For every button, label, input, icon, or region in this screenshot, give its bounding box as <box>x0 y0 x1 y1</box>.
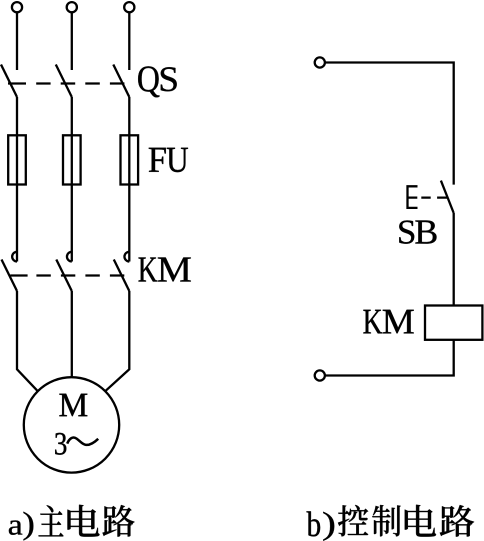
label FU - U <box>167 148 188 172</box>
terminal L2 <box>67 2 77 12</box>
label SB - B <box>415 221 436 244</box>
contactor KM pole 3 blade <box>114 260 130 292</box>
caption a paren <box>24 512 34 541</box>
fuse FU 1 <box>8 135 26 184</box>
label KM coil - M <box>383 310 414 334</box>
caption zhu 主 <box>39 505 64 536</box>
contactor KM pole 3 fixed contact arc <box>124 252 129 262</box>
control circuit top terminal <box>315 57 325 67</box>
control circuit bottom terminal <box>315 370 325 380</box>
caption a <box>9 521 22 535</box>
switch QS pole 1 blade <box>1 65 17 98</box>
wire L3 mid <box>128 97 130 262</box>
caption b <box>307 511 321 536</box>
tilde of 3~ <box>67 438 98 445</box>
label KM coil - K <box>363 310 382 334</box>
contactor coil KM <box>425 306 482 340</box>
label QS - S <box>161 67 177 91</box>
switch QS pole 3 blade <box>113 65 129 98</box>
caption dian2 电 <box>405 505 436 537</box>
caption dian 电 <box>68 505 100 537</box>
contactor KM pole 2 blade <box>56 260 72 292</box>
wire L3 top <box>128 13 130 71</box>
label SB - S <box>399 221 414 244</box>
label KM main - K <box>139 258 158 282</box>
switch QS pole 2 blade <box>56 65 72 98</box>
motor label 3 <box>55 433 66 455</box>
wire L2 mid <box>71 97 73 262</box>
wire L3 to motor <box>105 291 129 391</box>
wire L2 top <box>71 13 73 71</box>
contactor KM pole 1 blade <box>2 260 18 292</box>
SB operator dashed link <box>421 196 447 198</box>
label FU - F <box>149 148 166 172</box>
QS linkage dashed line <box>8 82 124 84</box>
wire coil to bottom <box>325 340 454 376</box>
motor label M <box>59 394 87 417</box>
fuse FU 3 <box>121 135 139 184</box>
wire L1 top <box>16 13 18 71</box>
label QS - Q <box>138 66 159 97</box>
terminal L1 <box>12 2 22 12</box>
terminal L3 <box>124 2 134 12</box>
caption lu 路 <box>103 505 135 537</box>
caption lu2 路 <box>440 505 474 537</box>
push button SB blade <box>441 181 454 213</box>
label KM main - M <box>158 258 191 282</box>
caption kong 控 <box>338 505 368 536</box>
motor M circle <box>24 377 119 472</box>
caption zhi 制 <box>372 505 400 536</box>
contactor KM pole 2 fixed contact arc <box>67 252 72 262</box>
wire L2 to motor <box>71 291 73 377</box>
wire L1 to motor <box>17 291 38 391</box>
caption b paren <box>323 512 334 541</box>
control top wire <box>325 63 454 185</box>
KM linkage dashed line <box>10 274 124 276</box>
fuse FU 2 <box>63 135 81 184</box>
contactor KM pole 1 fixed contact arc <box>12 252 17 262</box>
push button SB operator E <box>408 186 418 208</box>
wire SB to coil <box>453 213 455 306</box>
wire L1 mid <box>16 97 18 262</box>
